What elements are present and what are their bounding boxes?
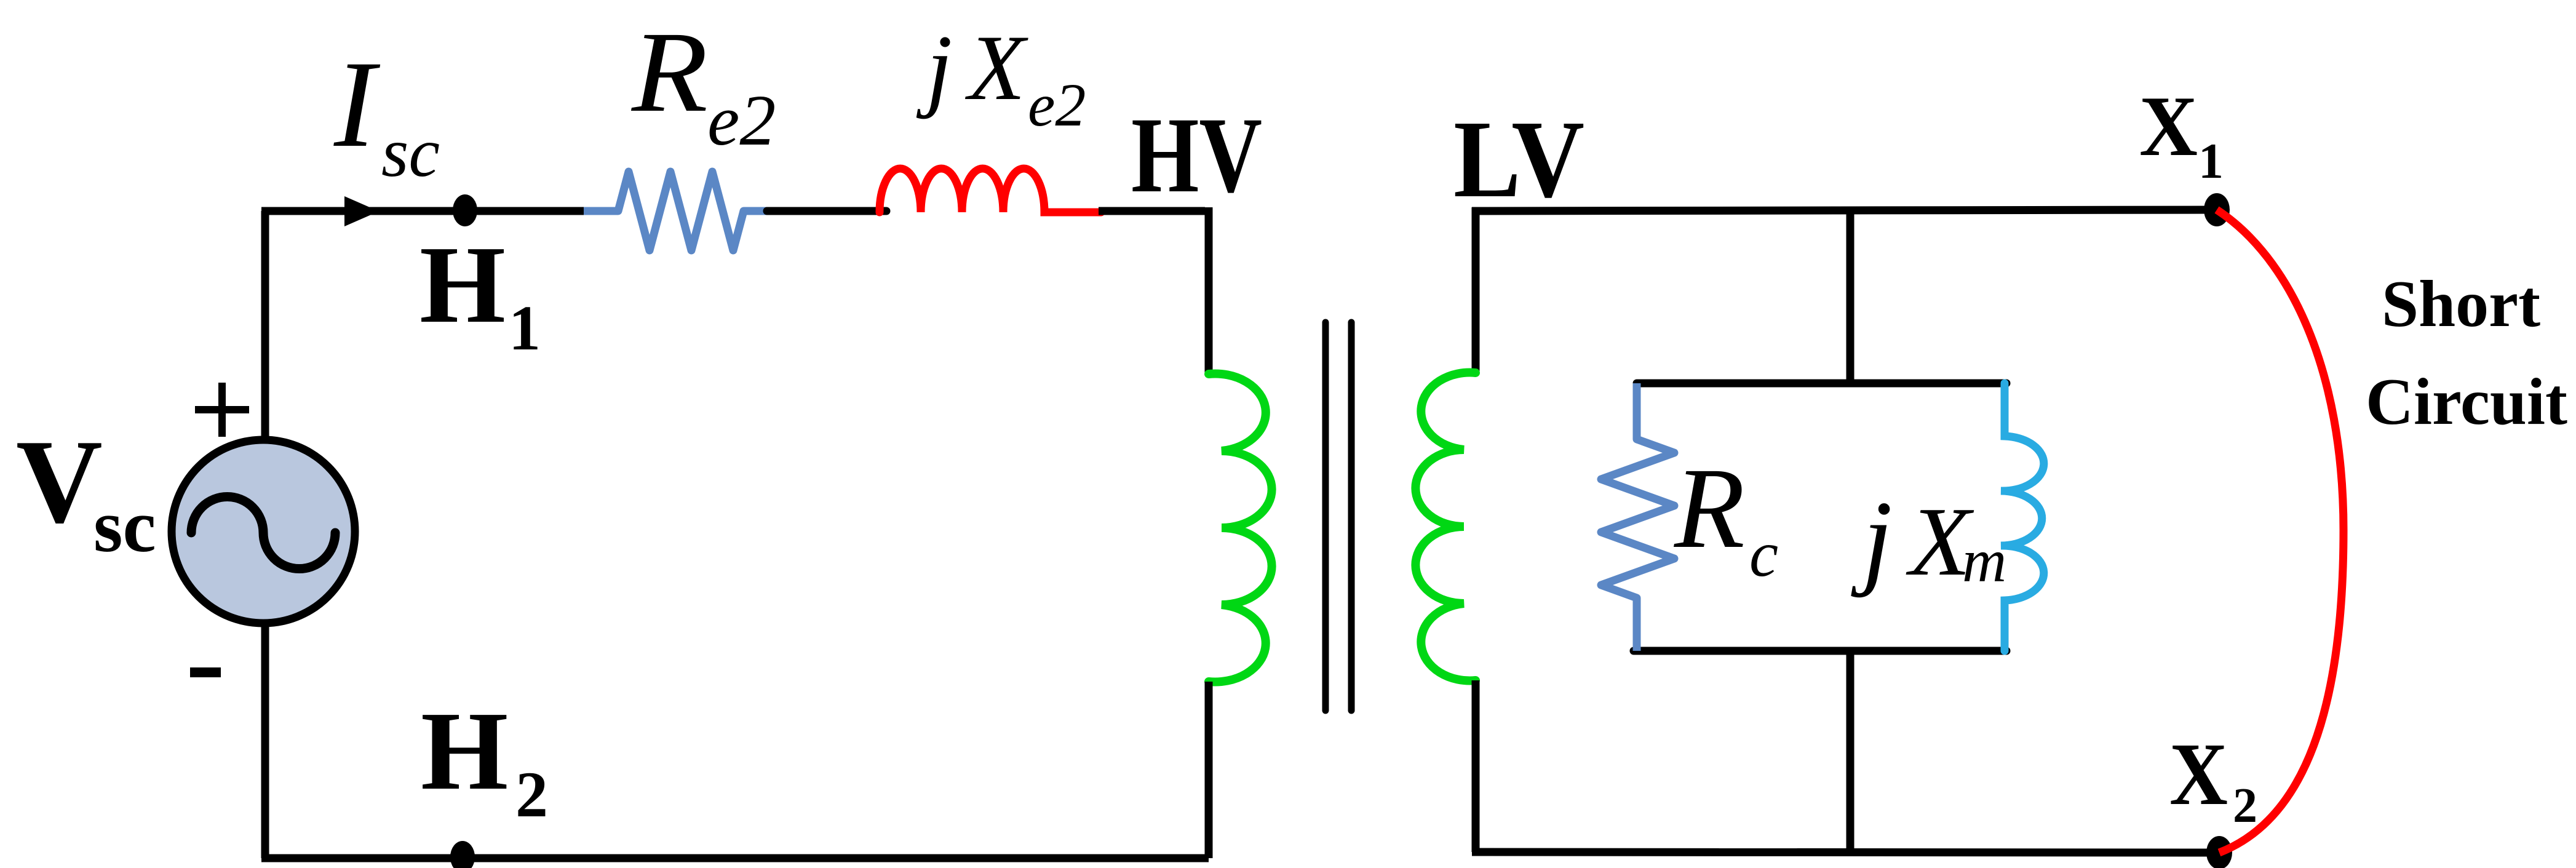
svg-text:e2: e2 <box>1028 71 1086 139</box>
wire left vertical top (source + to top rail) <box>261 211 269 440</box>
svg-text:e2: e2 <box>707 80 776 161</box>
wire bottom rail left loop <box>261 854 1209 862</box>
svg-text:Circuit: Circuit <box>2366 365 2567 439</box>
svg-text:H: H <box>419 223 506 346</box>
svg-text:R: R <box>630 7 708 136</box>
inductor jXm (cyan coil) <box>2001 383 2044 651</box>
svg-text:m: m <box>1962 527 2006 595</box>
AC source Vsc circle <box>172 440 355 623</box>
wire shunt tap vertical bottom <box>1847 651 1854 852</box>
resistor Rc (blue vertical zigzag) <box>1601 383 1674 651</box>
shunt box bottom wire <box>1634 647 2006 655</box>
wire HV vertical down to winding <box>1205 207 1213 374</box>
svg-text:I: I <box>333 35 381 173</box>
wire HV winding bottom to bottom rail <box>1205 682 1213 858</box>
wire bottom rail right segment <box>1472 852 2219 853</box>
node X2 dot <box>2206 836 2232 868</box>
wire jXe2 to HV corner <box>1099 207 1205 215</box>
wire shunt tap vertical top <box>1847 210 1854 383</box>
wire left vertical bottom (source - to bottom rail) <box>261 624 269 858</box>
svg-text:1: 1 <box>509 293 541 364</box>
svg-text:2: 2 <box>2233 779 2257 833</box>
transformer secondary winding (green) <box>1415 373 1476 681</box>
plus terminal <box>195 383 249 437</box>
shunt box top wire <box>1637 380 2006 388</box>
svg-text:X: X <box>2139 79 2198 174</box>
svg-text:H: H <box>421 688 508 813</box>
wire top rail left segment <box>261 207 586 215</box>
svg-text:sc: sc <box>381 113 440 191</box>
svg-text:2: 2 <box>515 759 548 830</box>
svg-text:LV: LV <box>1453 98 1584 220</box>
wire LV vertical top <box>1472 207 1480 373</box>
AC source sine wave <box>191 497 335 569</box>
minus terminal <box>190 667 221 677</box>
transformer primary winding (green) <box>1209 373 1272 682</box>
short circuit red arc X1 to X2 <box>2217 210 2343 853</box>
resistor Re2 (blue zigzag) <box>584 172 767 250</box>
svg-text:V: V <box>16 415 103 548</box>
svg-text:sc: sc <box>93 485 156 568</box>
svg-text:R: R <box>1673 444 1745 572</box>
transformer core line right <box>1348 322 1355 711</box>
node H1 dot <box>453 194 477 226</box>
node X1 dot <box>2204 193 2230 226</box>
wire top rail right segment <box>1472 210 2217 211</box>
svg-text:1: 1 <box>2198 133 2224 189</box>
arrow current direction Isc <box>344 196 379 226</box>
inductor jXe2 (red coil) <box>880 169 1101 212</box>
svg-text:X: X <box>2169 725 2228 824</box>
node H2 dot <box>450 841 475 868</box>
svg-text:Short: Short <box>2382 268 2540 341</box>
transformer core line left <box>1322 322 1329 711</box>
svg-text:X: X <box>964 16 1028 119</box>
wire between Re2 and jXe2 <box>767 207 886 215</box>
svg-text:HV: HV <box>1131 95 1262 215</box>
wire LV winding bottom to bottom rail <box>1472 680 1480 852</box>
svg-text:c: c <box>1749 518 1778 590</box>
